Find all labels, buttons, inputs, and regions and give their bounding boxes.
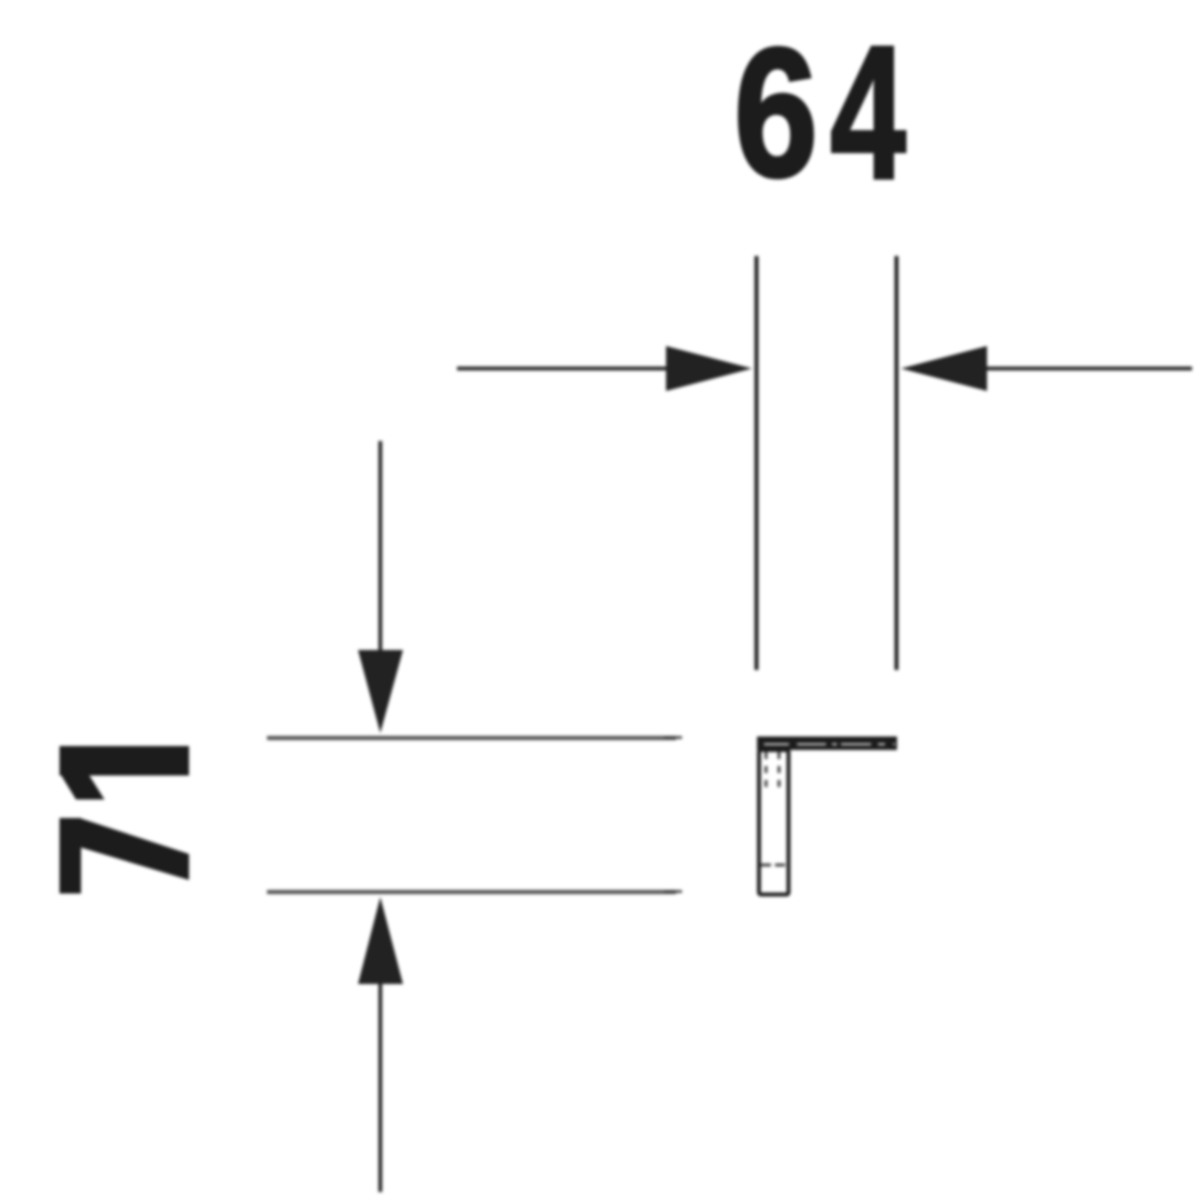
svg-text:4: 4	[830, 7, 906, 218]
svg-text:6: 6	[734, 10, 818, 215]
